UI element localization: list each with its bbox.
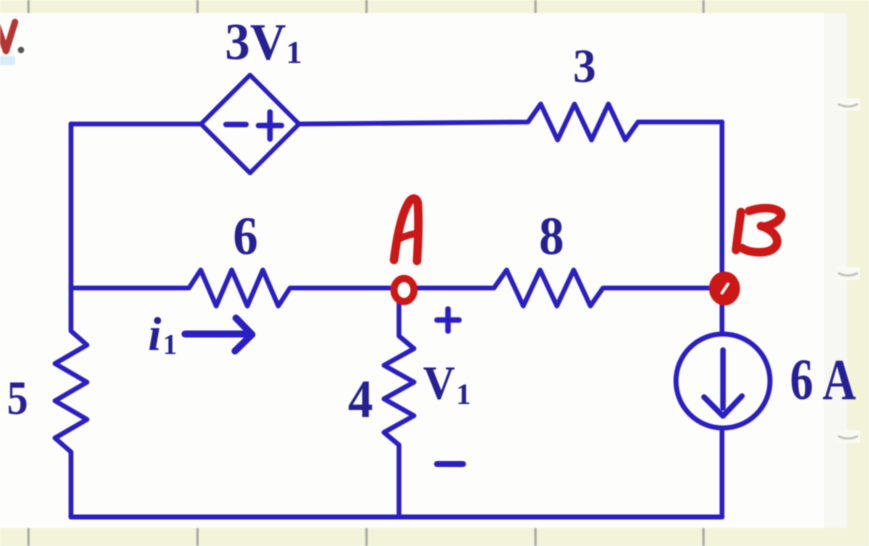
svg-text:8: 8 <box>539 206 564 266</box>
svg-text:V: V <box>423 357 455 410</box>
svg-text:6 A: 6 A <box>790 347 856 412</box>
svg-text:6: 6 <box>233 206 258 266</box>
svg-text:3V: 3V <box>225 14 286 71</box>
svg-text:1: 1 <box>286 34 302 70</box>
svg-text:3: 3 <box>573 40 596 93</box>
svg-text:1: 1 <box>456 378 471 411</box>
svg-text:1: 1 <box>163 330 177 361</box>
svg-text:i: i <box>148 308 162 361</box>
svg-text:5: 5 <box>7 372 28 425</box>
svg-text:4: 4 <box>348 369 373 429</box>
